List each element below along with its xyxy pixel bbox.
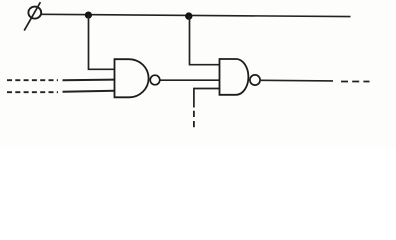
junction dot B (rail to gate U2) xyxy=(185,12,192,19)
NAND gate U1 body xyxy=(115,59,149,97)
wire: U1 output to U2 middle input xyxy=(160,79,219,81)
NAND gate U1 inversion bubble xyxy=(150,75,160,85)
wire: U1 middle input (dashed stub then solid), net from left xyxy=(7,79,115,82)
junction dot A (rail to gate U1) xyxy=(85,12,92,19)
wire: U2 bottom input from below xyxy=(194,89,220,108)
wire: U2 output to the right xyxy=(261,79,333,82)
wire: top clock rail xyxy=(41,14,350,16)
NAND gate U2 body xyxy=(220,59,249,95)
NAND gate U2 inversion bubble xyxy=(250,75,260,85)
wire: dashed continuation of U2 bottom input net (off-page) xyxy=(193,111,195,129)
clock node phi (circle with slash) xyxy=(24,2,41,30)
wire: rail down to U1 top input xyxy=(89,15,114,69)
wire: rail down to U2 top input xyxy=(190,16,220,65)
wire: dashed continuation of U2 output net (off-page) xyxy=(341,81,370,83)
wire: U1 bottom input (dashed stub then solid), net from left xyxy=(7,91,115,92)
